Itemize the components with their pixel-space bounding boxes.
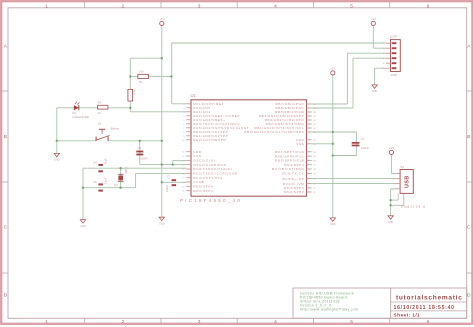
svg-text:+5V: +5V xyxy=(371,17,376,21)
svg-text:GND: GND xyxy=(80,225,86,228)
svg-text:D: D xyxy=(4,293,8,299)
svg-text:GND: GND xyxy=(159,222,165,225)
svg-text:GND: GND xyxy=(388,221,394,224)
svg-text:IndicatorLED: IndicatorLED xyxy=(72,115,89,119)
svg-text:RC5/D+/VP: RC5/D+/VP xyxy=(282,177,304,181)
svg-text:RE2/AN7/OESPP: RE2/AN7/OESPP xyxy=(193,138,226,142)
svg-text:RD2/SPP2: RD2/SPP2 xyxy=(284,190,304,194)
svg-text:PIC18F4550_40: PIC18F4550_40 xyxy=(180,198,242,203)
svg-text:GND: GND xyxy=(372,90,378,93)
svg-text:RC6/TX/CK: RC6/TX/CK xyxy=(282,172,304,176)
svg-text:Sheet: 1/1: Sheet: 1/1 xyxy=(394,312,421,318)
svg-text:100nF: 100nF xyxy=(140,157,148,161)
svg-text:2: 2 xyxy=(122,319,125,325)
svg-text:PN61729-S: PN61729-S xyxy=(401,205,426,209)
svg-text:Q1: Q1 xyxy=(114,183,118,187)
svg-text:GND: GND xyxy=(54,159,60,162)
svg-text:4MHz: 4MHz xyxy=(124,166,128,174)
svg-text:X2: X2 xyxy=(400,165,404,169)
svg-text:C1: C1 xyxy=(138,146,142,150)
svg-text:C: C xyxy=(467,225,471,231)
svg-text:RD1/SPP1: RD1/SPP1 xyxy=(193,189,213,193)
svg-text:4: 4 xyxy=(274,319,277,325)
svg-text:Button: Button xyxy=(111,127,120,131)
svg-text:2: 2 xyxy=(122,4,125,10)
svg-text:4: 4 xyxy=(274,4,277,10)
svg-text:S1: S1 xyxy=(98,121,102,125)
svg-text:D: D xyxy=(467,293,471,299)
svg-text:tutorialschematic: tutorialschematic xyxy=(396,294,463,301)
svg-text:1: 1 xyxy=(45,319,48,325)
svg-text:R1: R1 xyxy=(139,80,143,84)
svg-text:B: B xyxy=(467,134,470,140)
svg-text:1k: 1k xyxy=(98,111,102,115)
svg-text:+5V: +5V xyxy=(330,66,335,70)
svg-text:RC7/RX/DT/SDO: RC7/RX/DT/SDO xyxy=(272,167,304,171)
svg-text:6: 6 xyxy=(427,319,430,325)
svg-text:+5V: +5V xyxy=(389,146,394,150)
svg-text:C5: C5 xyxy=(93,180,97,184)
svg-text:http://www.waitingforfriday.co: http://www.waitingforfriday.com xyxy=(300,308,358,312)
svg-text:C4: C4 xyxy=(93,160,97,164)
svg-text:R2: R2 xyxy=(98,101,102,105)
svg-text:6: 6 xyxy=(427,4,430,10)
svg-text:+5V: +5V xyxy=(159,17,164,21)
svg-text:5: 5 xyxy=(350,4,353,10)
svg-text:C3: C3 xyxy=(361,137,365,141)
svg-text:C: C xyxy=(4,225,8,231)
svg-text:ICSP: ICSP xyxy=(390,35,397,39)
svg-text:GND: GND xyxy=(330,223,336,226)
svg-text:15pF: 15pF xyxy=(103,158,107,165)
svg-text:100nF: 100nF xyxy=(361,146,369,150)
svg-text:3: 3 xyxy=(198,319,201,325)
svg-text:VSS: VSS xyxy=(296,142,304,146)
svg-text:RB0/AN12/INT0/FLT0/SDI/SDA: RB0/AN12/INT0/FLT0/SDI/SDA xyxy=(244,130,304,134)
svg-text:4.7k: 4.7k xyxy=(132,89,136,95)
svg-text:15pF: 15pF xyxy=(103,177,107,184)
svg-text:C2: C2 xyxy=(166,175,170,179)
svg-text:220nF: 220nF xyxy=(165,184,169,192)
svg-text:USB: USB xyxy=(405,175,411,188)
svg-text:1: 1 xyxy=(45,4,48,10)
svg-text:10k: 10k xyxy=(139,70,144,74)
svg-text:3: 3 xyxy=(198,4,201,10)
svg-text:16/10/2011 18:55:40: 16/10/2011 18:55:40 xyxy=(394,305,455,311)
svg-text:U1: U1 xyxy=(191,93,197,98)
svg-text:1X06: 1X06 xyxy=(391,73,398,77)
svg-text:B: B xyxy=(4,134,7,140)
svg-text:5: 5 xyxy=(350,319,353,325)
